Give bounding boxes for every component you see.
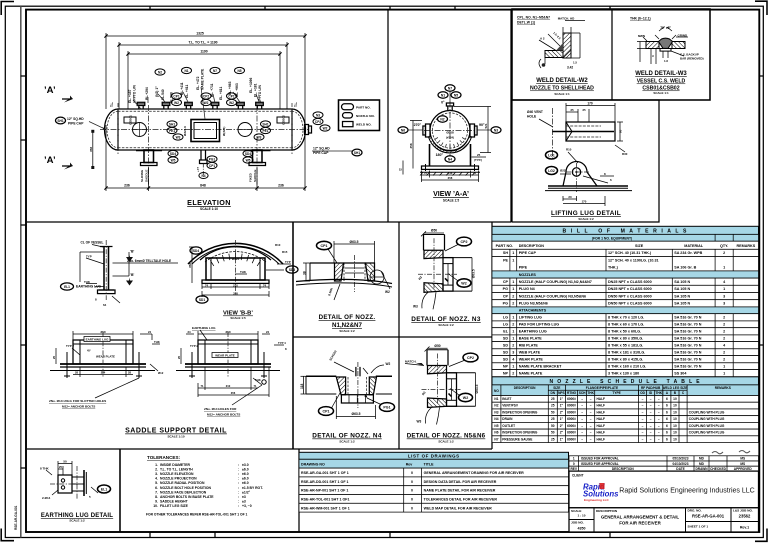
svg-text:2: 2: [723, 357, 725, 361]
svg-text:6000#: 6000#: [567, 397, 576, 401]
saddle fig3: anchor bolts: [64, 352, 142, 378]
svg-text:8 THK x 50 x 60LG.: 8 THK x 50 x 60LG.: [608, 330, 641, 334]
svg-text:QTY.: QTY.: [720, 244, 728, 248]
svg-text:SCALE 1:5: SCALE 1:5: [443, 199, 460, 203]
svg-text:REMARKS: REMARKS: [737, 244, 756, 248]
svg-text:350: 350: [100, 330, 105, 334]
svg-text:COUPLING WITH PLUG: COUPLING WITH PLUG: [689, 424, 725, 428]
saddle fig1: earthing lug balloon: [61, 283, 74, 290]
svg-text:8 THK x 55 x 181LG.: 8 THK x 55 x 181LG.: [608, 343, 643, 347]
svg-text:SD3: SD3: [289, 268, 295, 272]
svg-text:TYP 2: TYP 2: [190, 344, 198, 348]
elevation: left head vertical dim 358: [92, 131, 94, 168]
svg-text:LIST OF DRAWINGS: LIST OF DRAWINGS: [408, 454, 460, 459]
svg-text:N3: N3: [316, 113, 320, 117]
svg-text:N4: N4: [201, 174, 205, 178]
svg-text:SA 516 Gr. 70 N: SA 516 Gr. 70 N: [674, 350, 701, 354]
nozzdet4: balloon CP2: [463, 353, 478, 362]
svg-text:CP2: CP2: [203, 94, 209, 98]
svg-text:6: 6: [666, 404, 668, 408]
svg-text:BASE PLATE: BASE PLATE: [519, 336, 543, 340]
svg-text:DN25 NPT x CLASS 6000: DN25 NPT x CLASS 6000: [608, 280, 652, 284]
svg-text:MD: MD: [699, 462, 705, 466]
svg-text:CP1: CP1: [228, 94, 234, 98]
elevation: inner balloons (shell/pipe part nos): [133, 123, 147, 137]
svg-text:–: –: [650, 397, 652, 401]
svg-text:N3: N3: [494, 128, 498, 132]
svg-text:BL. +963: BL. +963: [235, 83, 239, 97]
viewAA: right vertical dim: [410, 107, 491, 169]
svg-text:PE: PE: [503, 259, 508, 263]
svg-text:2: 2: [723, 336, 725, 340]
svg-text:2: 2: [512, 302, 514, 306]
svg-text:50: 50: [551, 431, 555, 435]
viewAA: top nozzle stub N7: [447, 106, 449, 111]
svg-text:8 THK x 80 x 350LG.: 8 THK x 80 x 350LG.: [608, 336, 643, 340]
svg-text:25: 25: [59, 465, 62, 469]
svg-text:–: –: [581, 404, 583, 408]
svg-text:RSE-AR-WM-001 SHT 1 OF 1: RSE-AR-WM-001 SHT 1 OF 1: [301, 506, 350, 510]
svg-text:Rev.1: Rev.1: [740, 526, 749, 530]
weldW2: shell plate hatched: [545, 51, 563, 58]
svg-text:SA 234 Gr. WPB: SA 234 Gr. WPB: [674, 251, 702, 255]
svg-text:1: 1: [512, 251, 514, 255]
svg-text:FIXED: FIXED: [249, 172, 253, 182]
svg-text:SA 516 Gr. 70 N: SA 516 Gr. 70 N: [674, 330, 701, 334]
saddle fig3: dims: [56, 331, 160, 377]
svg-text:–: –: [658, 431, 660, 435]
svg-text:2: 2: [723, 316, 725, 320]
svg-text:DETL.W (1): DETL.W (1): [517, 21, 535, 25]
svg-text:12″ SCH. 40 (10.31 THK.): 12″ SCH. 40 (10.31 THK.): [608, 251, 652, 255]
svg-text:DESCRIPTION: DESCRIPTION: [514, 386, 536, 390]
weldW3: backup bar: [660, 49, 671, 52]
svg-text:SA 516 Gr. 70 N: SA 516 Gr. 70 N: [674, 357, 701, 361]
svg-text:N4: N4: [448, 157, 452, 161]
elevation: top nozzle stubs: [138, 106, 140, 110]
svg-text:W2: W2: [174, 101, 179, 105]
svg-text:1: 1: [723, 266, 725, 270]
svg-text:0: 0: [411, 471, 413, 475]
svg-text:DETAIL OF NOZZ. N5&N6: DETAIL OF NOZZ. N5&N6: [407, 433, 486, 440]
nozzle schedule table: [492, 377, 759, 443]
svg-text:N7: N7: [448, 86, 452, 90]
svg-text:W2: W2: [385, 290, 390, 294]
svg-text:TYPE: TYPE: [612, 391, 620, 395]
svg-text:EL. +472: EL. +472: [196, 76, 200, 90]
svg-text:DESCRIPTION: DESCRIPTION: [596, 509, 618, 513]
svg-text:NAME PLATE: NAME PLATE: [201, 68, 205, 90]
svg-text:–: –: [642, 404, 644, 408]
svg-text:15: 15: [399, 168, 403, 172]
viewAA: wear plate hatched band: [429, 136, 472, 152]
svg-text:GRIND: GRIND: [678, 34, 689, 38]
earthlug: connecting lines: [72, 477, 84, 491]
svg-text:10: 10: [673, 437, 677, 441]
svg-text:SD4: SD4: [245, 152, 251, 156]
svg-text:10: 10: [673, 431, 677, 435]
svg-text:05/10/2023: 05/10/2023: [673, 457, 689, 461]
elevation: name plate bracket NP1: [191, 120, 220, 142]
saddle fig4: anchor bolts: [189, 352, 267, 384]
svg-text:8 THK x 60 x 170 LG.: 8 THK x 60 x 170 LG.: [608, 323, 644, 327]
svg-text:WELD LEG SIZE: WELD LEG SIZE: [663, 386, 688, 390]
svg-text:NO: NO: [494, 389, 499, 393]
svg-text:R10: R10: [275, 243, 281, 247]
svg-text:NOZZLE NO.: NOZZLE NO.: [356, 114, 375, 118]
svg-text:Ø63.5: Ø63.5: [352, 412, 361, 416]
svg-text:356: 356: [231, 391, 236, 395]
svg-text:SCH: SCH: [579, 391, 586, 395]
svg-text:2-Ø14: 2-Ø14: [42, 496, 51, 500]
svg-text:M12= ANCHOR BOLTS: M12= ANCHOR BOLTS: [207, 413, 240, 417]
svg-text:T.L. TO T.L. = 1190: T.L. TO T.L. = 1190: [188, 41, 217, 45]
svg-text:Rev: Rev: [406, 462, 413, 466]
svg-text:ELEVATION: ELEVATION: [187, 198, 231, 207]
svg-text:FOR AIR RECEIVER: FOR AIR RECEIVER: [619, 521, 661, 526]
svg-text:6: 6: [666, 431, 668, 435]
svg-text:PART NO.: PART NO.: [496, 244, 513, 248]
svg-text:6000#: 6000#: [567, 417, 576, 421]
svg-text:–: –: [590, 431, 592, 435]
svg-text:10: 10: [673, 410, 677, 414]
svg-text:CSB02: CSB02: [281, 115, 285, 125]
svg-text:6000#: 6000#: [567, 437, 576, 441]
svg-text:–: –: [650, 437, 652, 441]
list of drawings table: [299, 452, 569, 512]
svg-text:BL.+294: BL.+294: [145, 87, 149, 100]
svg-text:SD: SD: [503, 350, 508, 354]
saddle fig3: base plate section (sliding): [50, 332, 155, 378]
saddle fig1: side view column: [98, 247, 116, 294]
revision table: [569, 451, 759, 472]
svg-text:70° ±5°: 70° ±5°: [660, 26, 671, 30]
nozzdet3: pipe stub above shell: [355, 367, 357, 376]
svg-text:HALF: HALF: [597, 404, 606, 408]
svg-text:EL. +157: EL. +157: [128, 89, 132, 103]
svg-text:24: 24: [187, 330, 191, 334]
svg-text:358: 358: [89, 147, 93, 152]
svg-text:50: 50: [551, 410, 555, 414]
svg-text:COUPLING WITH PLUG: COUPLING WITH PLUG: [689, 417, 725, 421]
svg-text:HALF: HALF: [597, 424, 606, 428]
svg-text:±3.0: ±3.0: [242, 463, 249, 467]
svg-text:PLUG N3,N5&N6: PLUG N3,N5&N6: [519, 302, 548, 306]
svg-text:PG1: PG1: [383, 406, 390, 410]
svg-text:PIPE CAP: PIPE CAP: [68, 121, 84, 125]
viewAA: internal radial ticks: [435, 138, 465, 149]
svg-text:W2: W2: [461, 282, 466, 286]
svg-text:NOZZLE PROJECTION: NOZZLE PROJECTION: [160, 477, 197, 481]
liftlug: weld marks and dims bottom: [560, 152, 614, 206]
svg-text:74: 74: [263, 283, 267, 287]
svg-text:DESCRIPTION: DESCRIPTION: [612, 467, 634, 471]
svg-text:MATCH. HD: MATCH. HD: [558, 17, 575, 21]
elevation: vessel shell: [118, 109, 292, 150]
svg-text:PG1: PG1: [209, 157, 216, 161]
liftlug: vertical line + balloons: [552, 108, 554, 160]
svg-text:–: –: [581, 417, 583, 421]
svg-text:Ø50: Ø50: [431, 229, 437, 233]
svg-text:HALF: HALF: [597, 437, 606, 441]
svg-text:WEAR PLATE: WEAR PLATE: [519, 357, 544, 361]
svg-text::: :: [238, 463, 239, 467]
svg-text:PIPE CAP: PIPE CAP: [313, 151, 329, 155]
svg-text::: :: [238, 486, 239, 490]
weldW3: V-groove weld: [659, 38, 673, 48]
svg-text:RSE-AR-TOL-001 SHT 1 OF1: RSE-AR-TOL-001 SHT 1 OF1: [301, 498, 349, 502]
svg-text:–: –: [650, 431, 652, 435]
svg-text:±3: ±3: [242, 499, 246, 503]
elevation: nozzle balloons above: [155, 69, 165, 75]
svg-text:Ø50: Ø50: [434, 344, 440, 348]
svg-text:N6: N6: [401, 128, 405, 132]
svg-text:2No. Ø14=20LG FOR SLOTTED HOLE: 2No. Ø14=20LG FOR SLOTTED HOLES: [49, 399, 106, 403]
nozzdet1: coupling body: [335, 263, 344, 281]
svg-text:SADDLE: SADDLE: [253, 170, 257, 182]
viewAA: right nozzle stub: [470, 124, 475, 137]
svg-text:5.: 5.: [155, 481, 158, 485]
svg-text:SIZE: SIZE: [635, 244, 644, 248]
svg-text:INSPECTION OPENING: INSPECTION OPENING: [502, 410, 538, 414]
svg-text:SCALE 1:1: SCALE 1:1: [554, 92, 570, 96]
svg-text:210: 210: [226, 384, 231, 388]
svg-text:ANCHOR BOLTS IN BASE PLATE: ANCHOR BOLTS IN BASE PLATE: [160, 495, 214, 499]
svg-text:EL. +1096: EL. +1096: [249, 78, 253, 93]
svg-text:SH1: SH1: [262, 122, 268, 126]
svg-text:REV: REV: [570, 467, 577, 471]
svg-text:ATTACHMENTS: ATTACHMENTS: [519, 309, 547, 313]
svg-text:±1.5 BY ROT.: ±1.5 BY ROT.: [242, 486, 263, 490]
viewAA: balloons: [445, 85, 455, 91]
elevation: leader lines from labels to nozzles: [133, 87, 260, 119]
svg-text:TITLE: TITLE: [424, 462, 435, 466]
svg-text:74: 74: [205, 283, 209, 287]
tolerances panel right edge: [298, 449, 300, 532]
svg-text:Ø508: Ø508: [446, 131, 454, 135]
svg-text:RSE-AR-GA-001 SHT 1 OF 1: RSE-AR-GA-001 SHT 1 OF 1: [301, 471, 349, 475]
svg-text:OUTLET: OUTLET: [502, 424, 515, 428]
svg-text:25: 25: [177, 355, 181, 359]
nozzdet3: bore dashed: [347, 377, 349, 395]
svg-text:210: 210: [233, 283, 238, 287]
svg-text:THK.): THK.): [608, 265, 619, 269]
svg-text:INLET: INLET: [502, 397, 511, 401]
nozzdet3: coupling hatched walls below shell: [336, 377, 345, 395]
svg-text:10: 10: [673, 424, 677, 428]
svg-text:DN50 NPT x CLASS 6000: DN50 NPT x CLASS 6000: [608, 294, 652, 298]
svg-text:SA 516 Gr. 70 N: SA 516 Gr. 70 N: [674, 316, 701, 320]
svg-text:(FOR 1 NO. EQUIPMENT): (FOR 1 NO. EQUIPMENT): [592, 236, 632, 240]
svg-text:24: 24: [266, 330, 270, 334]
svg-text:T.L.: T.L.: [110, 102, 114, 107]
svg-text:R30: R30: [622, 152, 628, 156]
svg-text:Ø40 VENT: Ø40 VENT: [527, 110, 543, 114]
svg-text:EL. +811: EL. +811: [219, 87, 223, 100]
svg-text:THK: THK: [255, 378, 261, 382]
svg-text:–: –: [642, 431, 644, 435]
svg-text:118: 118: [300, 384, 304, 389]
svg-text:DETAIL OF NOZZ. N4: DETAIL OF NOZZ. N4: [312, 433, 382, 440]
elevation: drain nozzle N4 bottom: [200, 150, 202, 160]
earthlug: plate with bolt holes: [58, 475, 72, 493]
svg-text:THK: THK: [655, 391, 662, 395]
svg-text:FILLET LEG SIZE: FILLET LEG SIZE: [160, 504, 189, 508]
svg-text:2: 2: [512, 343, 514, 347]
svg-text:NOZZLE BOLT HOLE POSITION: NOZZLE BOLT HOLE POSITION: [160, 486, 212, 490]
svg-text:–: –: [650, 410, 652, 414]
svg-text:MS: MS: [740, 462, 745, 466]
svg-text:FOR OTHER TOLERANCES REFER RSE: FOR OTHER TOLERANCES REFER RSE-AR-TOL-00…: [146, 513, 248, 517]
svg-text:CHECKED: CHECKED: [710, 467, 726, 471]
svg-text:(#324): (#324): [446, 136, 454, 140]
svg-text:DESCRIPTION: DESCRIPTION: [519, 244, 545, 248]
svg-text:38: 38: [302, 271, 306, 275]
svg-text:216: 216: [448, 171, 453, 175]
svg-text:236: 236: [124, 184, 130, 188]
svg-text:25: 25: [551, 397, 555, 401]
svg-text:1.6: 1.6: [664, 59, 668, 63]
svg-text:SADDLE SUPPORT DETAIL: SADDLE SUPPORT DETAIL: [125, 428, 227, 435]
svg-text:W2: W2: [229, 101, 234, 105]
svg-text:±6.0: ±6.0: [242, 472, 249, 476]
svg-text:NOZZLE FACE DEFLECTION: NOZZLE FACE DEFLECTION: [160, 490, 207, 494]
nozzdet1: top dim: [303, 241, 375, 281]
svg-text:2: 2: [512, 323, 514, 327]
svg-text:6: 6: [666, 410, 668, 414]
svg-text:(TYP.): (TYP.): [474, 158, 482, 162]
svg-text:6MIN: 6MIN: [638, 34, 645, 38]
svg-text:1: 1: [512, 330, 514, 334]
svg-text:1: 1: [723, 287, 725, 291]
svg-text:2″: 2″: [560, 424, 564, 428]
svg-text:SCALE 1:2: SCALE 1:2: [578, 217, 594, 221]
svg-text:3: 3: [512, 350, 514, 354]
svg-text:28: 28: [75, 371, 78, 375]
svg-text:2: 2: [723, 251, 725, 255]
svg-text:PIPE CAP: PIPE CAP: [519, 251, 537, 255]
svg-text:6: 6: [666, 424, 668, 428]
svg-text:±3: ±3: [242, 495, 246, 499]
svg-text:SCALE 1:2: SCALE 1:2: [69, 519, 85, 523]
viewAA: ground hatch below base: [420, 172, 475, 175]
svg-text:N O Z Z L E S C H E D U L E: N O Z Z L E S C H E D U L E T A B L E: [550, 379, 701, 385]
svg-text:+77: +77: [196, 167, 200, 172]
elevation: bottom dim chain: [106, 125, 305, 191]
svg-text:SD4: SD4: [193, 249, 199, 253]
svg-text::: :: [238, 477, 239, 481]
svg-text:W3: W3: [176, 135, 181, 139]
svg-text:1.: 1.: [155, 463, 158, 467]
svg-text:3.42: 3.42: [567, 66, 573, 70]
svg-text:35: 35: [582, 108, 586, 112]
svg-text:Engineering LLC: Engineering LLC: [584, 498, 610, 502]
svg-text:–: –: [642, 424, 644, 428]
svg-text:SH1: SH1: [169, 122, 175, 126]
svg-text:–: –: [658, 424, 660, 428]
svg-text:MS: MS: [740, 457, 745, 461]
svg-text:’A’: ’A’: [44, 155, 56, 166]
svg-text:1″: 1″: [560, 437, 564, 441]
svg-text:SS 304: SS 304: [674, 371, 687, 375]
svg-text:2: 2: [723, 323, 725, 327]
svg-text:SCALE 1:2: SCALE 1:2: [438, 440, 454, 444]
svg-text:NPS: NPS: [558, 391, 565, 395]
title block client box: [569, 471, 759, 508]
svg-text:SD1: SD1: [199, 298, 205, 302]
liftlug: top figure plan view: [566, 122, 615, 141]
elevation: dim line overall length: [106, 33, 305, 125]
svg-text:SD: SD: [503, 343, 508, 347]
viewAA: outer shell circle: [430, 111, 470, 151]
svg-text:WEAR PLATE: WEAR PLATE: [215, 353, 235, 357]
svg-text:CP: CP: [503, 294, 509, 298]
svg-text:L&S JOB NO.: L&S JOB NO.: [733, 509, 753, 513]
saddle fig2: saddle web box: [206, 258, 265, 280]
svg-text:TOLERANCES:: TOLERANCES:: [147, 455, 181, 460]
svg-text:9.: 9.: [155, 499, 158, 503]
saddle fig1: dims/leaders: [80, 252, 129, 303]
svg-text:APPROVED: APPROVED: [734, 467, 753, 471]
svg-text:LG2: LG2: [548, 169, 555, 173]
svg-text:SH1: SH1: [354, 151, 360, 155]
svg-text:SA 105 N: SA 105 N: [674, 302, 690, 306]
svg-text:–: –: [581, 424, 583, 428]
liftlug: pad and shell lines: [548, 185, 628, 187]
svg-text:8 THK: 8 THK: [40, 467, 50, 471]
svg-text::: :: [238, 504, 239, 508]
svg-text::: :: [238, 472, 239, 476]
svg-text:RSE-AR-GA-001: RSE-AR-GA-001: [692, 514, 725, 519]
svg-text:MATCH.: MATCH.: [405, 360, 417, 364]
svg-text:CP2: CP2: [467, 356, 474, 360]
svg-text:SA 516 Gr. 70 N: SA 516 Gr. 70 N: [674, 343, 701, 347]
weldW2: weld fillet solid: [556, 43, 563, 51]
svg-text:–: –: [642, 397, 644, 401]
elevation: saddle SD left: [144, 150, 154, 163]
elevation: pipe cap leader right: [312, 150, 352, 152]
svg-text:W3: W3: [417, 420, 422, 424]
svg-text:4.: 4.: [155, 477, 158, 481]
svg-text:25: 25: [551, 417, 555, 421]
svg-text:NP: NP: [503, 364, 509, 368]
svg-text:W5: W5: [246, 158, 251, 162]
svg-text:2No. Ø14 HOLES FOR: 2No. Ø14 HOLES FOR: [204, 407, 237, 411]
svg-text:PG: PG: [503, 287, 508, 291]
bottom band top edge: [27, 448, 492, 450]
svg-text:TYP: TYP: [285, 260, 291, 264]
svg-text:2.: 2.: [155, 468, 158, 472]
svg-text:Ø63.5: Ø63.5: [472, 269, 476, 278]
svg-text:CP2: CP2: [461, 240, 468, 244]
svg-text:–: –: [642, 417, 644, 421]
saddle fig2: balloons: [190, 247, 202, 254]
svg-text:(N2) 1″: (N2) 1″: [155, 86, 159, 97]
svg-text:170: 170: [582, 200, 587, 204]
svg-text:’B’: ’B’: [130, 273, 134, 277]
svg-text:±1/2°: ±1/2°: [242, 490, 251, 494]
weldW2: outline extensions: [539, 21, 585, 65]
svg-text:Ø12: Ø12: [158, 371, 164, 375]
svg-text:JOB NO.: JOB NO.: [571, 521, 584, 525]
svg-text:SA 516 Gr. 70 N: SA 516 Gr. 70 N: [674, 336, 701, 340]
svg-text:T.L. TO T.L. LENGTH: T.L. TO T.L. LENGTH: [160, 468, 193, 472]
svg-text:EL. +181: EL. +181: [254, 83, 258, 97]
svg-text:DATE: DATE: [676, 467, 684, 471]
svg-text:CP1: CP1: [323, 410, 330, 414]
svg-text:270°: 270°: [414, 123, 422, 127]
svg-text:2″: 2″: [560, 431, 564, 435]
